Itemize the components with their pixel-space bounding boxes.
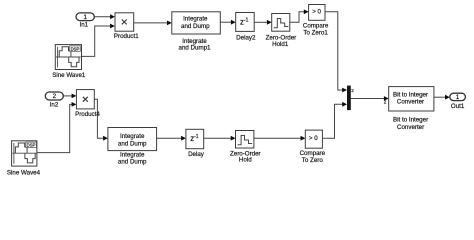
svg-text:Out1: Out1 (451, 103, 465, 110)
svg-text:Bit to Integer: Bit to Integer (393, 117, 428, 124)
product Product1 (114, 13, 139, 40)
block Zero-Order Hold (230, 131, 261, 164)
svg-text:Converter: Converter (397, 124, 424, 131)
svg-text:Integrate: Integrate (183, 16, 208, 23)
mux Vector Concatenate (347, 86, 354, 111)
svg-text:> 0: > 0 (309, 135, 318, 142)
svg-text:2: 2 (351, 88, 354, 93)
svg-text:DSP: DSP (27, 143, 36, 148)
wire Integrate and Dump to Delay (157, 136, 186, 141)
inport In2 (45, 92, 63, 109)
wire Compare To Zero1 to Concatenate (325, 12, 347, 93)
block Zero-Order Hold1 (266, 14, 297, 49)
svg-text:2: 2 (384, 99, 387, 104)
svg-text:Delay: Delay (188, 151, 205, 158)
svg-text:Integrate: Integrate (120, 152, 145, 159)
svg-text:and Dump1: and Dump1 (179, 45, 212, 52)
wire In1 to Product1 (94, 14, 115, 19)
svg-text:Integrate: Integrate (120, 133, 145, 140)
wire Zero-Order Hold1 to Compare To Zero1 (290, 9, 309, 22)
wire Compare To Zero to Concatenate (322, 102, 347, 138)
sine wave Sine Wave4 (7, 141, 41, 177)
outport Out1 (450, 93, 466, 110)
wire Concatenate to Bit to Integer Converter (351, 96, 389, 101)
wire Delay to Zero-Order Hold (204, 136, 236, 141)
wire Delay2 to Zero-Order Hold1 (254, 20, 272, 25)
block Integrate and Dump1 (172, 12, 221, 52)
block Compare To Zero1 (303, 5, 329, 37)
svg-text:and Dump: and Dump (118, 159, 147, 166)
wire Bit to Integer Converter to Out1 (434, 95, 450, 100)
svg-text:To Zero1: To Zero1 (303, 30, 328, 37)
svg-text:and Dump: and Dump (118, 140, 147, 147)
svg-text:> 0: > 0 (312, 9, 321, 16)
svg-text:Sine Wave1: Sine Wave1 (52, 72, 86, 79)
wire Integrate and Dump1 to Delay2 (220, 20, 235, 25)
delay Delay (186, 129, 205, 158)
block Integrate and Dump (108, 128, 157, 166)
wire Product1 to Integrate and Dump1 (134, 21, 172, 26)
svg-text:Product4: Product4 (75, 111, 100, 118)
wire In2 to Product4 (63, 94, 76, 99)
svg-text:In2: In2 (50, 102, 59, 109)
svg-text:Product1: Product1 (114, 33, 139, 40)
svg-text:Hold1: Hold1 (272, 41, 289, 48)
wire Zero-Order Hold to Compare To Zero (254, 136, 305, 141)
svg-text:To Zero: To Zero (302, 157, 324, 164)
svg-text:1: 1 (456, 94, 460, 101)
block Bit to Integer Converter (389, 87, 434, 132)
svg-text:Converter: Converter (397, 98, 424, 105)
svg-text:1: 1 (83, 14, 87, 21)
wire Sine Wave4 to Product4 (37, 102, 77, 153)
inport In1 (76, 13, 94, 29)
wire Product4 to Integrate and Dump (94, 99, 108, 140)
product Product4 (75, 90, 100, 118)
svg-text:DSP: DSP (71, 46, 80, 51)
sine wave Sine Wave1 (52, 45, 86, 79)
wire Sine Wave1 to Product1 (82, 24, 115, 57)
delay Delay2 (236, 13, 256, 42)
svg-text:Delay2: Delay2 (236, 34, 256, 41)
svg-text:In1: In1 (79, 21, 88, 28)
block Compare To Zero (300, 130, 326, 164)
svg-text:and Dump: and Dump (181, 23, 210, 30)
svg-text:Sine Wave4: Sine Wave4 (7, 169, 41, 176)
svg-text:2: 2 (53, 93, 57, 100)
svg-text:Hold: Hold (239, 157, 252, 164)
